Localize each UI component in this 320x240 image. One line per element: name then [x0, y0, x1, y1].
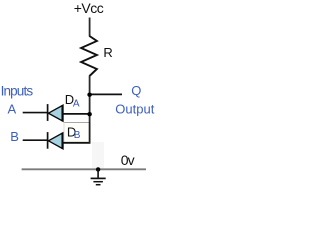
- svg-text:B: B: [74, 130, 81, 141]
- tooltip box around D_B label: [64, 122, 91, 142]
- diode D_B (triangle): [48, 133, 63, 149]
- wire: D_A anode to node: [63, 113, 91, 115]
- svg-text:Output: Output: [115, 101, 154, 116]
- svg-text:B: B: [10, 129, 19, 144]
- svg-text:Inputs: Inputs: [1, 84, 34, 99]
- ground symbol: [97, 169, 99, 177]
- 0v rail: [22, 168, 146, 170]
- node: output junction dot: [87, 92, 92, 97]
- wire: output branch to Q: [90, 93, 123, 95]
- svg-text:0v: 0v: [121, 152, 135, 168]
- wire: main vertical over box right edge: [89, 122, 91, 144]
- diode D_A (cathode bar): [47, 104, 49, 121]
- svg-text:A: A: [8, 102, 17, 117]
- wire: Vcc lead down to resistor top: [89, 18, 91, 37]
- diode D_B (base bar emphasis): [61, 133, 63, 149]
- wire: resistor bottom down to D_B corner: [89, 76, 91, 144]
- wire: input B to diode cathode: [23, 139, 48, 141]
- wire: input A to diode cathode: [23, 112, 48, 114]
- node: ground junction dot: [96, 167, 100, 171]
- svg-text:+Vcc: +Vcc: [74, 0, 104, 16]
- diode D_A (base bar emphasis): [61, 105, 63, 121]
- node: D_A junction dot: [87, 112, 92, 117]
- diode D_B (cathode bar): [47, 132, 49, 149]
- faint background band (screenshot artifact): [92, 142, 104, 169]
- resistor R: [81, 36, 97, 76]
- svg-text:A: A: [73, 98, 80, 109]
- svg-text:R: R: [103, 45, 112, 60]
- diode D_A (triangle): [48, 105, 63, 121]
- wire: D_B anode / box bottom edge: [62, 142, 90, 144]
- svg-text:Q: Q: [131, 83, 141, 98]
